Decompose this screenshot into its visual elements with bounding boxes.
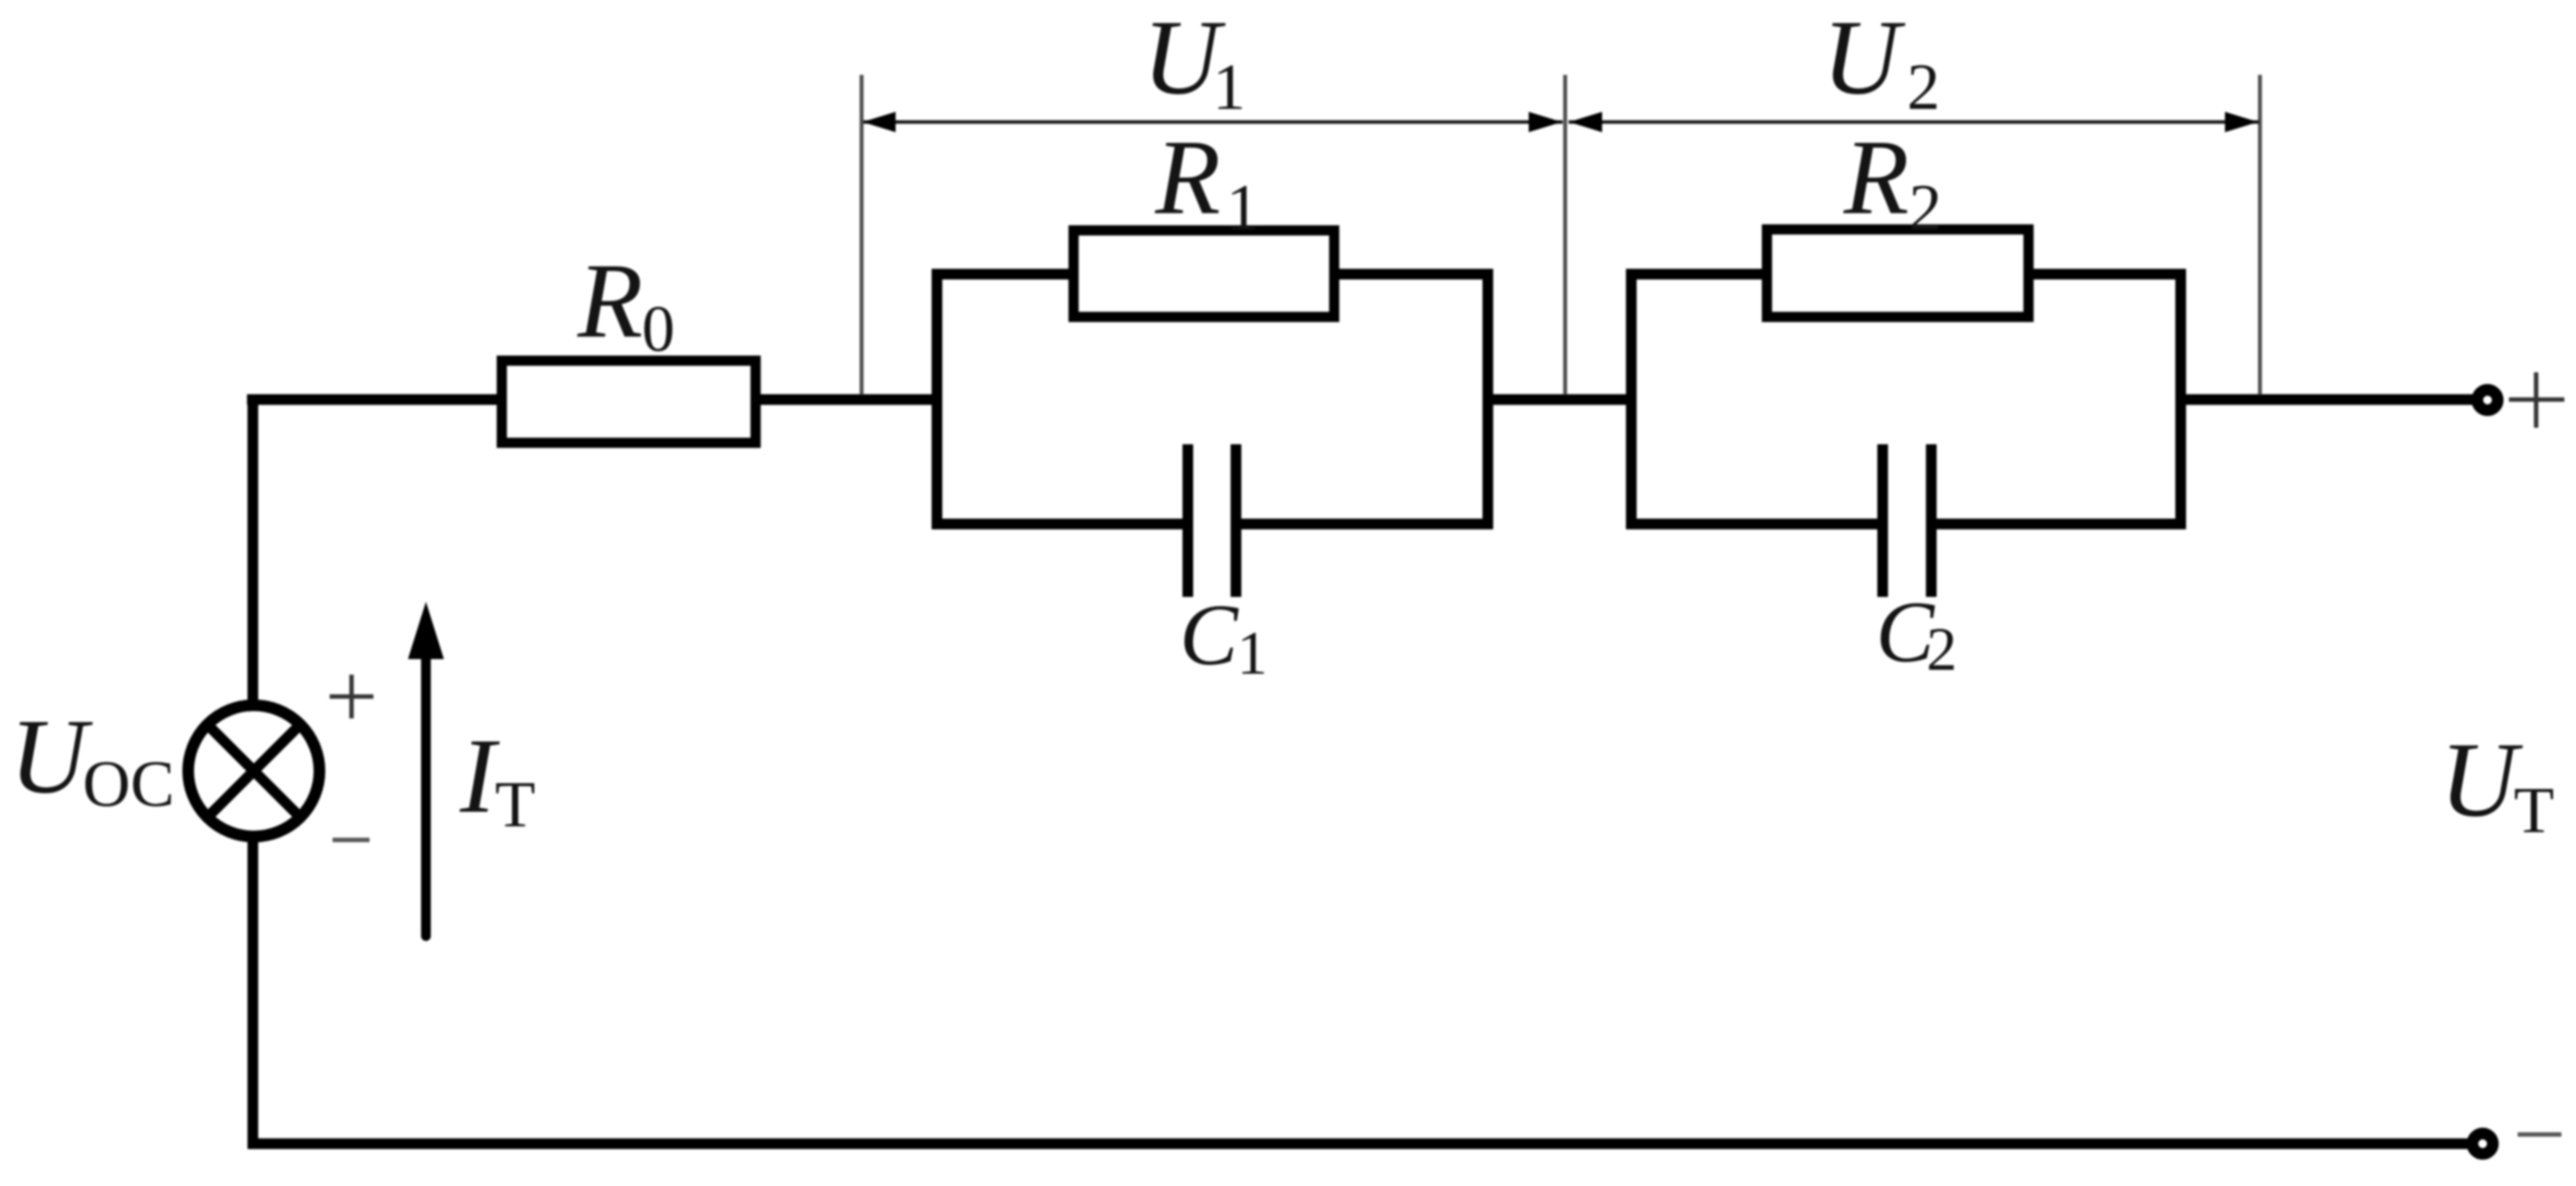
dimension arrowhead U1 left [863, 112, 896, 132]
positive output terminal [2478, 390, 2498, 410]
dimension arrowhead U2 right [2225, 112, 2258, 132]
dimension arrowhead U1 right [1529, 112, 1562, 132]
minus sign at negative terminal [2518, 1133, 2561, 1137]
svg-text:2: 2 [1909, 170, 1942, 244]
RC1 parallel loop wire [937, 274, 1489, 524]
label C1 [1180, 587, 1268, 687]
resistor R2 [1767, 229, 2029, 317]
wire R0 to RC1 [754, 395, 941, 405]
capacitor C2 plates [1883, 444, 1931, 597]
svg-text:1: 1 [1237, 619, 1268, 687]
wire RC1 to RC2 [1483, 395, 1636, 405]
label U_T [2440, 720, 2555, 847]
svg-text:C: C [1180, 587, 1239, 683]
svg-text:R: R [577, 241, 643, 360]
wire left vertical lower and bottom return wire [253, 836, 2470, 1144]
RC2 parallel loop wire [1632, 274, 2181, 524]
dimension arrowhead U2 left [1570, 112, 1603, 132]
svg-text:1: 1 [1226, 170, 1259, 244]
polarity minus sign at source [333, 838, 370, 843]
svg-text:U: U [1822, 0, 1906, 117]
svg-text:U: U [2440, 720, 2523, 839]
dimension line U2 span [1569, 121, 2259, 124]
wire top-left horizontal from source branch to R0 [247, 395, 506, 405]
wire left vertical upper (node to source top) [248, 395, 259, 709]
svg-text:U: U [10, 697, 93, 816]
svg-text:R: R [1843, 118, 1909, 236]
label R0 [577, 241, 675, 366]
dimension extension tick middle (node B) [1564, 75, 1568, 395]
label C2 [1876, 584, 1958, 683]
resistor R0 [502, 361, 756, 443]
svg-text:2: 2 [1926, 615, 1958, 683]
label I_T [459, 716, 536, 841]
label U2 [1822, 0, 1940, 123]
dimension extension tick left (node A) [860, 75, 864, 395]
label U_OC [10, 697, 174, 820]
svg-text:I: I [459, 716, 500, 835]
resistor R1 [1074, 230, 1334, 317]
capacitor C1 plates [1188, 444, 1237, 597]
label U1 [1143, 0, 1246, 123]
label R1 [1154, 118, 1259, 244]
svg-text:T: T [2514, 773, 2555, 847]
negative output terminal [2473, 1134, 2493, 1154]
svg-text:2: 2 [1907, 50, 1940, 123]
dimension line U1 span [864, 121, 1563, 124]
plus sign at positive terminal [2509, 372, 2564, 428]
svg-text:T: T [495, 767, 536, 841]
svg-text:0: 0 [642, 292, 675, 366]
svg-text:OC: OC [83, 747, 174, 820]
wire RC2 to positive terminal [2176, 395, 2473, 405]
label R2 [1843, 118, 1942, 244]
svg-text:1: 1 [1213, 50, 1246, 123]
polarity plus sign at source [330, 675, 373, 718]
current arrow I_T [408, 602, 444, 936]
voltage source U_OC circle with X [189, 706, 320, 837]
svg-text:R: R [1154, 118, 1220, 236]
dimension extension tick right (node C) [2258, 75, 2262, 395]
